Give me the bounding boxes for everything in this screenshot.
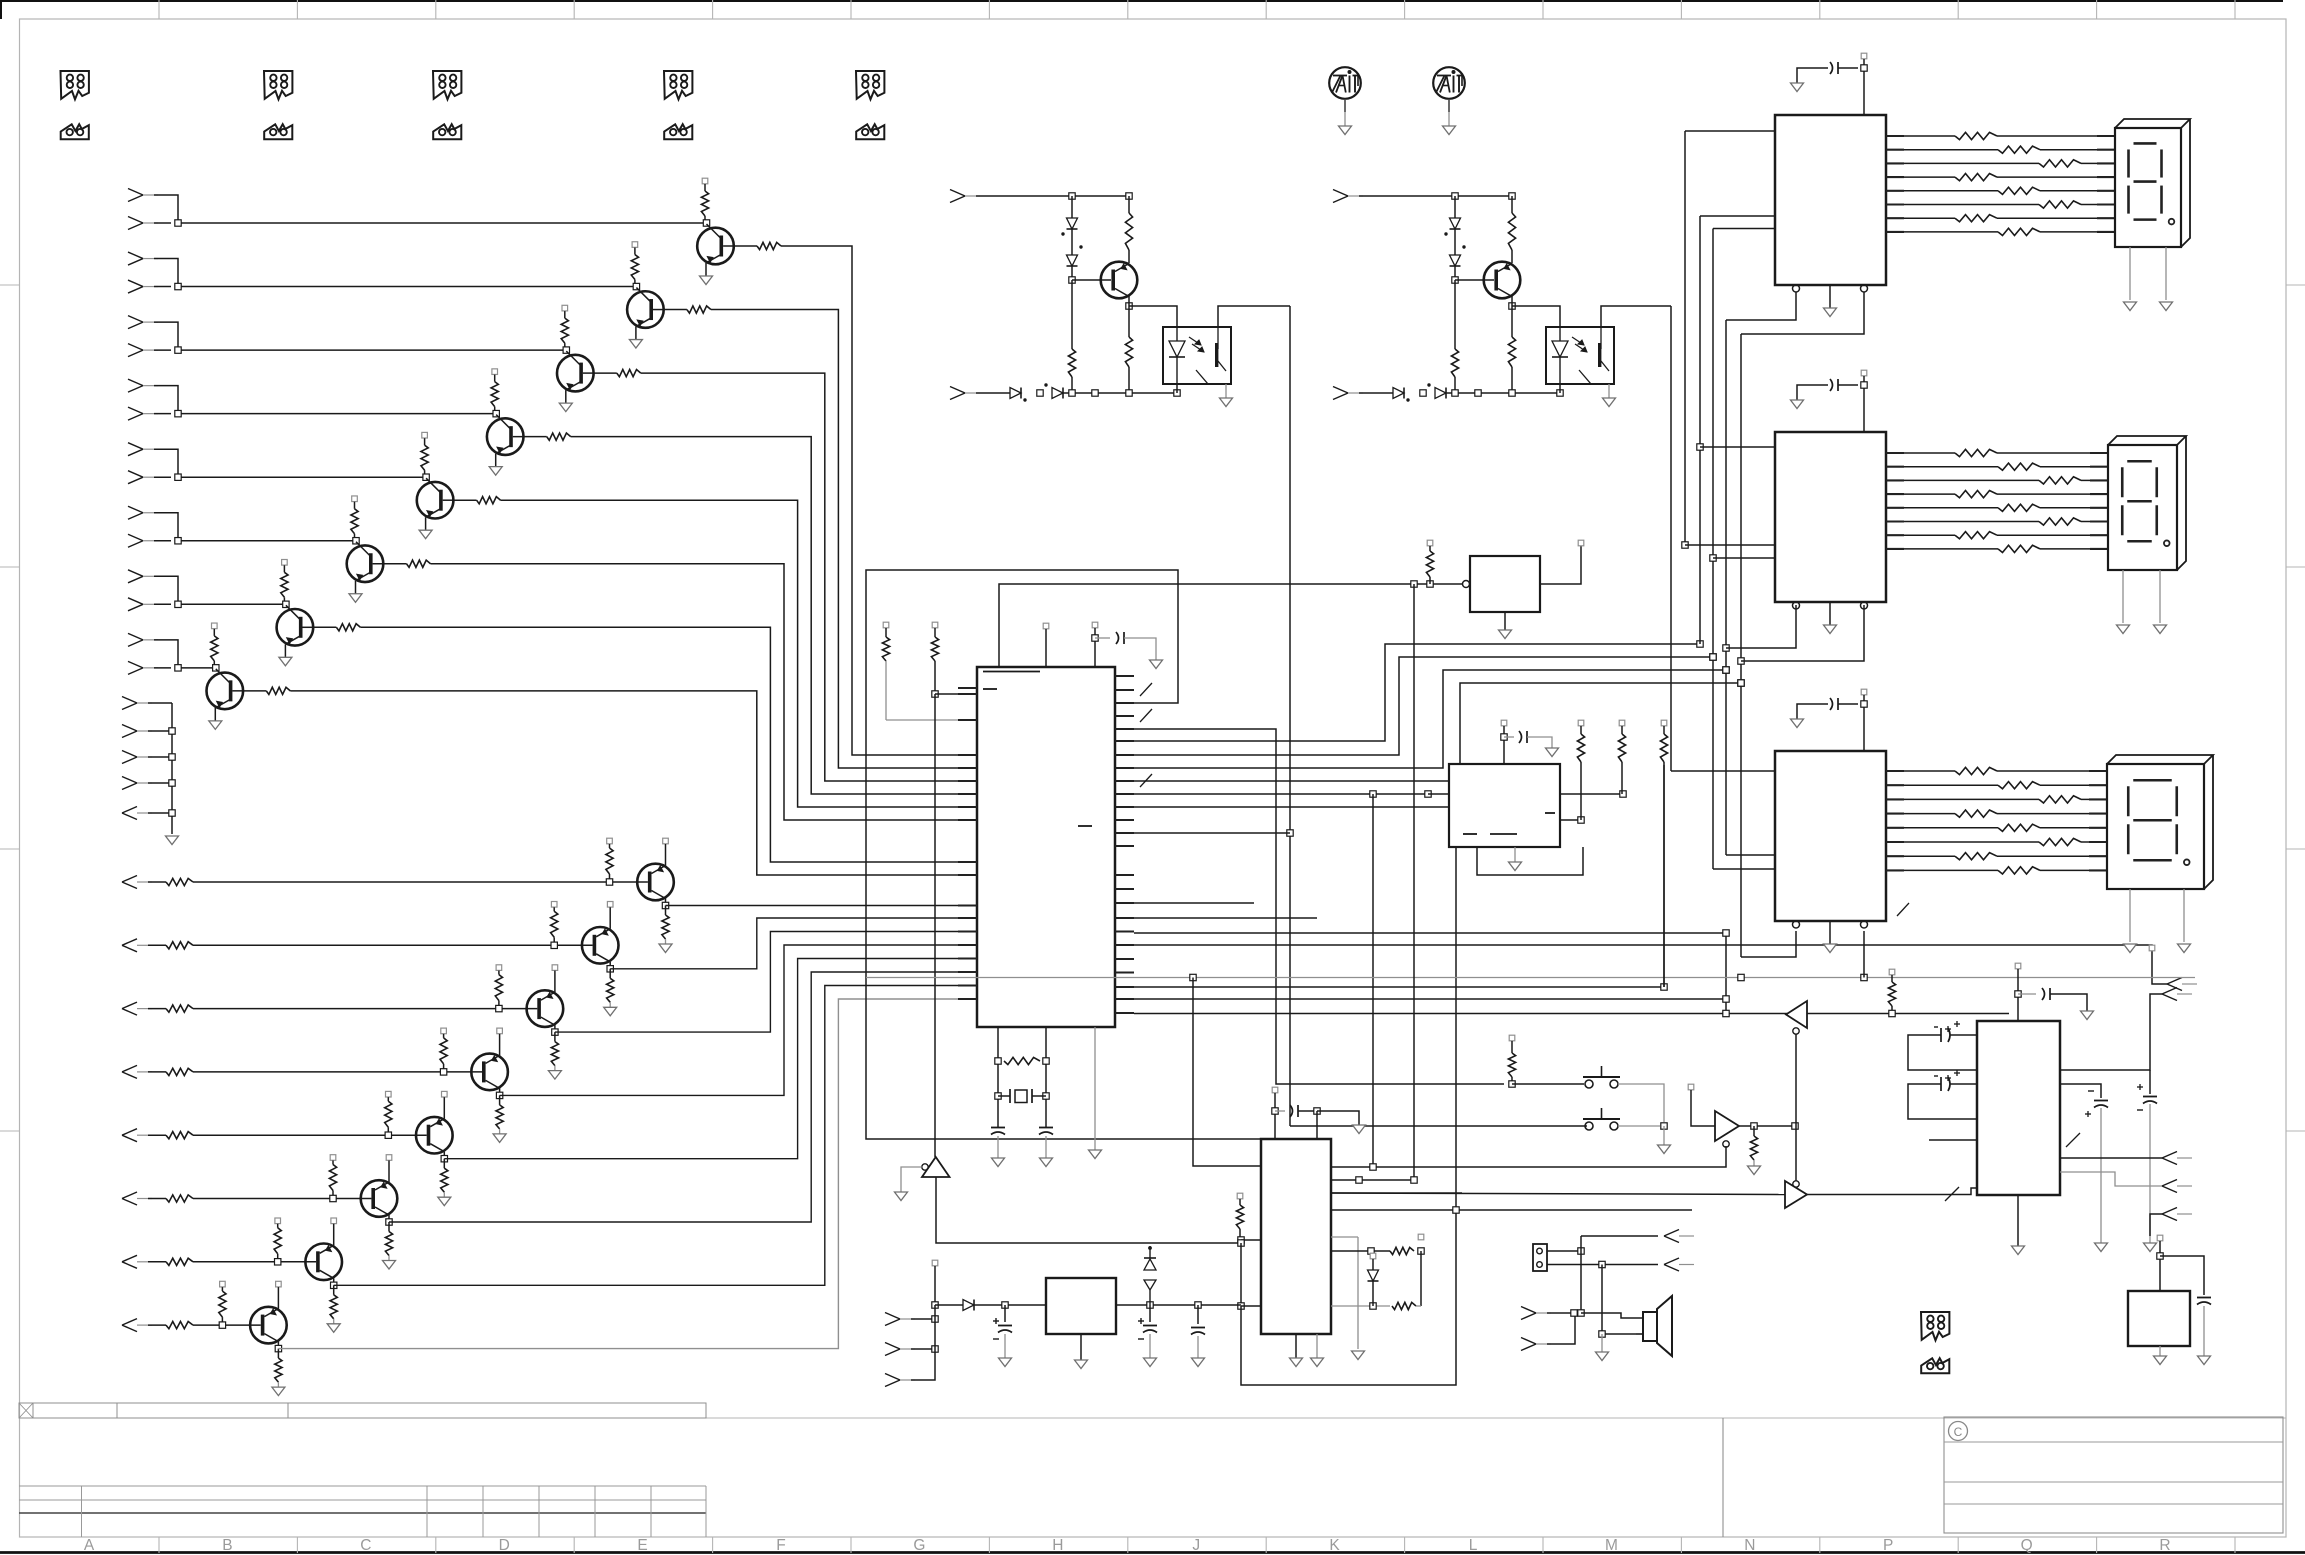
wire bbox=[1547, 1264, 1658, 1266]
node junction bbox=[1697, 641, 1703, 647]
capacitor C10 bbox=[1290, 1105, 1293, 1117]
wire bbox=[1331, 1305, 1390, 1307]
node junction bbox=[1370, 791, 1376, 797]
ground bbox=[383, 1261, 396, 1270]
wire bbox=[1929, 1139, 1977, 1141]
wire bbox=[1134, 917, 1317, 919]
wire gray bbox=[1316, 1334, 1318, 1358]
node junction bbox=[1509, 193, 1515, 199]
resistor R2g bbox=[1955, 215, 1997, 222]
node OUT1 bbox=[122, 876, 137, 883]
resistor R35 bbox=[1891, 975, 1893, 982]
svg-text:G: G bbox=[913, 1537, 925, 1554]
wire bbox=[2081, 841, 2089, 843]
wire bbox=[1691, 1090, 1715, 1126]
node junction bbox=[1147, 1302, 1153, 1308]
wire collector run bbox=[501, 500, 977, 807]
node junction bbox=[1453, 1207, 1459, 1213]
node junction bbox=[1043, 1058, 1049, 1064]
IC U4 display driver bbox=[1775, 751, 1886, 921]
node junction bbox=[331, 1282, 337, 1288]
wire bbox=[2122, 570, 2124, 623]
resistor R10B pull-up bbox=[553, 907, 555, 911]
wire bbox=[2149, 1104, 2151, 1243]
wire collector run bbox=[571, 437, 977, 794]
wire rail bbox=[1116, 1304, 1241, 1306]
wire bbox=[154, 286, 171, 288]
resistor R13A series bbox=[166, 1132, 193, 1139]
ground bbox=[2160, 302, 2173, 311]
wire bbox=[524, 436, 547, 438]
power VCC pin bbox=[607, 838, 613, 844]
node junction bbox=[1370, 1303, 1376, 1309]
wire bbox=[1741, 931, 1796, 957]
wire bbox=[2183, 889, 2185, 942]
node junction bbox=[1452, 390, 1458, 396]
connector icon J4a bbox=[664, 71, 692, 99]
wire bbox=[2040, 507, 2090, 509]
node IN1B bbox=[128, 217, 143, 224]
ground bbox=[895, 1192, 908, 1201]
diode D2A bbox=[1454, 196, 1456, 218]
node junction bbox=[175, 474, 181, 480]
ground bbox=[2154, 1356, 2167, 1365]
wire bbox=[1504, 736, 1514, 738]
power VCC pin bbox=[1272, 1087, 1278, 1093]
resistor R17 bbox=[885, 628, 887, 637]
ground bbox=[438, 1197, 451, 1206]
power VCC pin bbox=[386, 1091, 392, 1097]
power VCC pin bbox=[352, 496, 358, 502]
node SPKIN2 bbox=[1521, 1338, 1536, 1345]
power VCC pin bbox=[441, 1028, 447, 1034]
diode D2B bbox=[1454, 229, 1456, 255]
ground bbox=[2117, 625, 2130, 634]
wire emitter bbox=[443, 1097, 445, 1119]
wire bbox=[148, 944, 166, 946]
transistor Q15 bbox=[305, 1244, 342, 1281]
connector icon J2a bbox=[264, 71, 292, 99]
resistor R4g bbox=[1955, 853, 1997, 860]
power VCC pin bbox=[1661, 720, 1667, 726]
power VCC pin bbox=[1092, 622, 1098, 628]
power VCC pin bbox=[1861, 689, 1867, 695]
wire emitter bbox=[425, 517, 427, 530]
wire from buffer bbox=[936, 1177, 1241, 1243]
resistor R13C to ground bbox=[443, 1159, 445, 1169]
capacitor C13 bbox=[1197, 1305, 1199, 1324]
wire bbox=[1997, 493, 2090, 495]
resistor R14A series bbox=[166, 1195, 193, 1202]
wire bbox=[1726, 292, 1796, 320]
diode D2C bbox=[1393, 388, 1404, 399]
wire bbox=[1241, 1305, 1261, 1307]
wire bbox=[2081, 521, 2090, 523]
node junction bbox=[1861, 974, 1867, 980]
diode D5 bbox=[1370, 1253, 1376, 1259]
wire collector bbox=[1128, 297, 1130, 307]
ground bbox=[2095, 1243, 2108, 1252]
power VCC pin bbox=[275, 1218, 281, 1224]
wire emitter bbox=[284, 644, 286, 657]
wire bbox=[1379, 1146, 1726, 1167]
wire bbox=[1997, 176, 2097, 178]
node IN4A bbox=[128, 379, 143, 386]
transistor Q14 bbox=[361, 1180, 398, 1217]
wire bbox=[154, 476, 171, 478]
wire bbox=[934, 1266, 936, 1305]
wire bbox=[154, 540, 171, 542]
wire collector row bbox=[389, 972, 977, 1222]
node junction bbox=[169, 728, 175, 734]
wire bbox=[2129, 889, 2131, 942]
wire LED return bbox=[1559, 384, 1561, 393]
wire base run bbox=[193, 881, 648, 883]
wire bbox=[1540, 546, 1581, 584]
wire bbox=[1997, 135, 2097, 137]
wire segment-data run bbox=[1134, 683, 1741, 781]
wire base run bbox=[193, 1008, 537, 1010]
resistor pull-up bbox=[1580, 726, 1582, 734]
wire collector bbox=[1511, 297, 1513, 307]
svg-text:E: E bbox=[637, 1537, 647, 1554]
wire collector bbox=[499, 1088, 501, 1095]
wire pin1 mark bbox=[983, 671, 1040, 673]
logo symbol LOGO1 bbox=[1329, 67, 1361, 99]
power VCC pin bbox=[2149, 945, 2155, 951]
node polarity dots bbox=[1024, 399, 1026, 401]
resistor pull-up bbox=[1621, 726, 1623, 734]
svg-text:B: B bbox=[222, 1537, 232, 1554]
IC U9 timer bbox=[1261, 1139, 1331, 1334]
node junction bbox=[1723, 667, 1729, 673]
wire bbox=[1289, 306, 1291, 1126]
wire bbox=[178, 222, 707, 224]
capacitor C3 bbox=[1039, 1127, 1053, 1129]
svg-text:K: K bbox=[1329, 1537, 1340, 1554]
power VCC pin bbox=[497, 1028, 503, 1034]
transistor Q6 bbox=[347, 545, 384, 582]
node junction bbox=[606, 879, 612, 885]
wire emitter bbox=[554, 971, 556, 993]
ground bbox=[2081, 1011, 2094, 1020]
node junction bbox=[1411, 581, 1417, 587]
power VCC pin bbox=[1688, 1084, 1694, 1090]
buffer U12 bbox=[1715, 1111, 1739, 1141]
switch SW1 bbox=[1585, 1080, 1593, 1088]
wire base run bbox=[193, 1198, 371, 1200]
node junction bbox=[423, 474, 429, 480]
wire bbox=[1618, 1125, 1660, 1127]
node junction bbox=[1509, 303, 1515, 309]
wire bbox=[2165, 247, 2167, 300]
wire bbox=[178, 667, 216, 669]
wire bbox=[1547, 1250, 1581, 1252]
ground bbox=[272, 1387, 285, 1396]
node junction bbox=[1425, 791, 1431, 797]
display DS1 7-segment bbox=[2115, 128, 2181, 247]
power VCC pin bbox=[212, 623, 218, 629]
node IN3B bbox=[128, 344, 143, 351]
node IN6B bbox=[128, 534, 143, 541]
capacitor C14 bbox=[2042, 988, 2045, 1000]
wire bbox=[2040, 827, 2089, 829]
node IN3A bbox=[128, 316, 143, 323]
node OPTIN1B bbox=[950, 387, 965, 394]
resistor R2d bbox=[1955, 174, 1997, 181]
resistor R5A pull-up bbox=[424, 438, 426, 445]
node PWRIN2 bbox=[885, 1343, 900, 1350]
transistor Q2 bbox=[627, 291, 664, 328]
wire bbox=[1997, 855, 2089, 857]
ground bbox=[1791, 83, 1804, 92]
transistor Q4 bbox=[487, 418, 524, 455]
wire bbox=[1241, 1239, 1261, 1241]
IC U11 regulator bbox=[1046, 1278, 1116, 1334]
node junction bbox=[1037, 390, 1043, 396]
node arrow bbox=[2162, 1152, 2177, 1159]
wire bbox=[1503, 726, 1505, 764]
transistor Q5 bbox=[417, 482, 454, 519]
node junction bbox=[1661, 1123, 1667, 1129]
wire collector bbox=[554, 1025, 556, 1032]
wire long row bbox=[1134, 945, 2167, 984]
wire bbox=[2160, 1256, 2204, 1295]
ground bbox=[2124, 302, 2137, 311]
wire bbox=[1428, 793, 1449, 795]
node junction bbox=[1069, 390, 1075, 396]
wire bbox=[154, 667, 171, 669]
resistor R12A series bbox=[166, 1068, 193, 1075]
node junction bbox=[1578, 1248, 1584, 1254]
ground bbox=[2178, 944, 2191, 953]
power VCC pin bbox=[552, 965, 558, 971]
wire bbox=[1416, 1305, 1421, 1307]
power VCC pin bbox=[492, 369, 498, 375]
wire bbox=[1331, 1192, 1462, 1194]
wire bbox=[1094, 1027, 1096, 1150]
resistor R9B pull-up bbox=[609, 844, 611, 848]
node junction bbox=[1043, 1093, 1049, 1099]
IC U15 reset gen bbox=[2128, 1291, 2190, 1346]
wire emitter bbox=[388, 1161, 390, 1183]
resistor R4a bbox=[1955, 767, 1997, 774]
wire segment row bbox=[1886, 452, 1904, 454]
wire bbox=[1838, 384, 1858, 386]
transistor Q3 bbox=[557, 355, 594, 392]
wire bbox=[901, 1167, 922, 1192]
wire bbox=[1316, 1111, 1318, 1139]
node polarity dots bbox=[1445, 233, 1447, 235]
wire LED return bbox=[1176, 384, 1178, 393]
power VCC pin bbox=[663, 838, 669, 844]
wire bbox=[2159, 1241, 2161, 1291]
wire bbox=[1560, 793, 1623, 795]
node junction bbox=[213, 665, 219, 671]
resistor R32 bbox=[1392, 1302, 1416, 1309]
wire control row bbox=[1134, 1013, 2009, 1015]
node clock slash bbox=[2066, 1133, 2080, 1147]
wire bbox=[1726, 605, 1796, 648]
wire bbox=[148, 881, 166, 883]
wire bbox=[178, 349, 566, 351]
node junction bbox=[1738, 680, 1744, 686]
node junction bbox=[1723, 667, 1729, 673]
resistor R2G bbox=[1511, 306, 1513, 337]
wire segment row bbox=[1886, 770, 1904, 772]
power VCC pin bbox=[1578, 720, 1584, 726]
node junction bbox=[1272, 1108, 1278, 1114]
resistor R20 bbox=[1429, 546, 1431, 551]
wire bbox=[1997, 813, 2089, 815]
wire base run bbox=[193, 1261, 316, 1263]
resistor R3B collector bbox=[617, 370, 641, 377]
wire bbox=[1134, 729, 1504, 1084]
ground bbox=[1339, 126, 1352, 135]
node junction bbox=[1571, 1310, 1577, 1316]
ground bbox=[559, 403, 572, 412]
node junction bbox=[2015, 991, 2021, 997]
node junction bbox=[1370, 1164, 1376, 1170]
ground bbox=[1748, 1166, 1761, 1175]
connector icon J1a bbox=[61, 71, 89, 99]
wire bbox=[1602, 1265, 1636, 1335]
node junction bbox=[1889, 1010, 1895, 1016]
svg-text:M: M bbox=[1605, 1537, 1618, 1554]
wire bbox=[1359, 195, 1512, 197]
wire bbox=[313, 626, 336, 628]
wire bbox=[1004, 1334, 1006, 1358]
wire collector run bbox=[641, 373, 977, 781]
node junction bbox=[1792, 1123, 1798, 1129]
ground bbox=[1150, 660, 1163, 669]
power VCC pin bbox=[1861, 53, 1867, 59]
power VCC pin bbox=[883, 622, 889, 628]
node junction bbox=[932, 1302, 938, 1308]
connector icon J5b bbox=[856, 124, 884, 139]
node junction bbox=[275, 1259, 281, 1265]
node junction bbox=[1738, 974, 1744, 980]
wire bbox=[1581, 1235, 1658, 1237]
wire collector row bbox=[610, 918, 977, 969]
wire bbox=[976, 195, 1129, 197]
wire long gray bus bbox=[866, 977, 2195, 979]
wire bbox=[1331, 1166, 1379, 1168]
wire gray bbox=[1357, 1237, 1359, 1349]
power VCC pin bbox=[331, 1218, 337, 1224]
wire bbox=[148, 1008, 166, 1010]
wire bbox=[2203, 1306, 2205, 1356]
ground bbox=[279, 657, 292, 666]
node junction bbox=[1578, 1310, 1584, 1316]
ground bbox=[1546, 748, 1559, 757]
resistor R3a bbox=[1955, 449, 1997, 456]
wire bbox=[1134, 933, 1726, 1014]
ground bbox=[700, 276, 713, 285]
node latch pin bbox=[1861, 921, 1868, 928]
node OPTIN1A bbox=[950, 190, 965, 197]
power VCC pin bbox=[1427, 540, 1433, 546]
ground bbox=[2124, 944, 2137, 953]
node latch pin bbox=[1793, 285, 1800, 292]
resistor R3f bbox=[2039, 518, 2081, 525]
wire to IC5 bbox=[1413, 584, 1415, 1180]
wire collector row bbox=[444, 959, 977, 1159]
node OUT2 bbox=[122, 939, 137, 946]
power VCC pin bbox=[1578, 540, 1584, 546]
ground bbox=[1791, 719, 1804, 728]
IC U2 display driver bbox=[1775, 115, 1886, 285]
resistor R3A pull-up bbox=[564, 311, 566, 318]
ground bbox=[2198, 1356, 2211, 1365]
wire segment row bbox=[1886, 534, 1904, 536]
ground bbox=[1824, 308, 1837, 317]
wire emitter bbox=[499, 1034, 501, 1056]
power VCC pin bbox=[1889, 969, 1895, 975]
wire bbox=[1454, 266, 1456, 280]
wire bbox=[2129, 247, 2131, 300]
transistor Q9 bbox=[637, 864, 674, 901]
node IN2B bbox=[128, 280, 143, 287]
node arrow bbox=[2162, 1180, 2177, 1187]
node junction bbox=[551, 942, 557, 948]
node junction bbox=[441, 1156, 447, 1162]
node OUT6 bbox=[122, 1192, 137, 1199]
wire bbox=[1045, 629, 1047, 667]
wire bbox=[1134, 806, 1456, 808]
wire bbox=[2159, 1346, 2161, 1356]
wire bbox=[1829, 602, 1831, 625]
node junction bbox=[1126, 303, 1132, 309]
node IN7A bbox=[128, 570, 143, 577]
wire base bbox=[1072, 279, 1111, 281]
wire bbox=[997, 1136, 999, 1158]
ground bbox=[419, 530, 432, 539]
wire bbox=[178, 413, 496, 415]
ground bbox=[1509, 862, 1522, 871]
wire bbox=[2150, 1214, 2162, 1236]
wire base run bbox=[193, 1134, 427, 1136]
resistor R3b bbox=[1998, 463, 2040, 470]
ground bbox=[1658, 1145, 1671, 1154]
wire bbox=[2017, 969, 2019, 1021]
svg-text:H: H bbox=[1052, 1537, 1063, 1554]
node junction bbox=[1411, 1177, 1417, 1183]
wire bottom loop bbox=[1241, 1210, 1456, 1385]
diode D1C bbox=[1010, 388, 1021, 399]
wire segment row bbox=[1886, 231, 1904, 233]
node junction bbox=[1697, 444, 1703, 450]
node arrow bbox=[2162, 1208, 2177, 1215]
node junction bbox=[175, 538, 181, 544]
ground bbox=[1603, 398, 1616, 407]
wire bbox=[178, 540, 356, 542]
wire to IC5 bbox=[1372, 794, 1374, 1167]
wire segment row bbox=[1886, 466, 1904, 468]
wire bbox=[2060, 1084, 2101, 1098]
wire bbox=[1512, 1083, 1584, 1085]
resistor R16C to ground bbox=[277, 1349, 279, 1359]
diode D1B bbox=[1071, 229, 1073, 255]
wire emitter bbox=[355, 581, 357, 594]
wire bbox=[1670, 306, 1672, 771]
node junction bbox=[1418, 1248, 1424, 1254]
resistor R8A pull-up bbox=[213, 629, 215, 636]
wire bbox=[1700, 215, 1775, 217]
wire bbox=[154, 349, 171, 351]
wire bbox=[1129, 306, 1177, 327]
ground bbox=[166, 836, 179, 845]
